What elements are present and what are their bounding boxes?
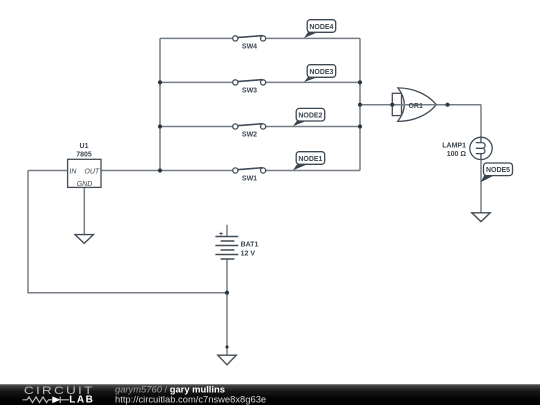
svg-text:SW1: SW1 [242,176,257,183]
svg-text:NODE2: NODE2 [298,113,322,120]
svg-text:SW2: SW2 [242,132,257,139]
svg-text:SW4: SW4 [242,43,257,50]
svg-text:+: + [219,231,223,238]
svg-text:OR1: OR1 [408,103,423,110]
svg-text:GND: GND [77,181,93,188]
svg-text:U1: U1 [80,143,89,150]
svg-text:NODE4: NODE4 [309,24,333,31]
svg-text:100 Ω: 100 Ω [447,151,467,158]
svg-text:OUT: OUT [84,168,100,175]
svg-text:SW3: SW3 [242,87,257,94]
svg-text:IN: IN [69,168,77,175]
svg-text:http://circuitlab.com/c7nswe8x: http://circuitlab.com/c7nswe8x8g63e [115,393,266,404]
svg-text:NODE1: NODE1 [298,156,322,163]
svg-text:BAT1: BAT1 [241,242,259,249]
svg-text:LAMP1: LAMP1 [442,143,466,150]
svg-text:12 V: 12 V [241,250,256,257]
svg-text:NODE5: NODE5 [486,167,510,174]
svg-text:LAB: LAB [69,395,94,405]
svg-text:NODE3: NODE3 [309,69,333,76]
svg-text:7805: 7805 [76,152,92,159]
